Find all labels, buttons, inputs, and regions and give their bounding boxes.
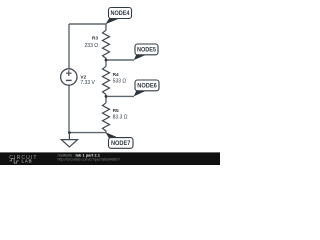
voltage source V2 (61, 69, 96, 86)
svg-text:NODE7: NODE7 (111, 140, 131, 147)
svg-text:83.3 Ω: 83.3 Ω (113, 115, 128, 121)
svg-text:R3: R3 (92, 36, 98, 42)
node NODE5 flag (134, 44, 158, 60)
footer watermark bar (0, 152, 220, 165)
svg-text:R4: R4 (113, 72, 119, 78)
resistor R5 (103, 103, 128, 131)
resistor R4 (103, 66, 127, 94)
svg-text:http://circuitlab.com/c/7qas7a: http://circuitlab.com/c/7qas7a6u84t8b7/ (58, 157, 121, 161)
wire node5 stub (106, 59, 134, 61)
wire right column segments (105, 24, 107, 133)
wire bottom (node7 net) (69, 132, 106, 134)
node NODE7 flag (106, 132, 134, 148)
svg-text:R5: R5 (113, 108, 119, 114)
wire left vertical lower (68, 85, 70, 132)
resistor R3 (85, 30, 110, 58)
svg-text:NODE4: NODE4 (111, 10, 130, 17)
wire node6 stub (106, 95, 134, 97)
junction dot between R3 and R4 (105, 59, 108, 62)
svg-text:533 Ω: 533 Ω (113, 79, 127, 85)
wire top (node4 net) (69, 23, 106, 25)
node NODE4 flag (105, 8, 131, 25)
svg-text:LAB: LAB (22, 158, 33, 163)
svg-text:233 Ω: 233 Ω (85, 43, 99, 49)
svg-text:7.33 V: 7.33 V (80, 80, 95, 86)
junction dot between R4 and R5 (105, 95, 108, 98)
CircuitLab logo (9, 155, 37, 164)
ground (61, 133, 77, 147)
svg-text:NODE5: NODE5 (137, 46, 156, 53)
wire left vertical upper (68, 24, 70, 69)
node NODE6 flag (134, 80, 159, 96)
svg-text:NODE6: NODE6 (137, 82, 157, 89)
junction dot at ground (68, 131, 71, 134)
